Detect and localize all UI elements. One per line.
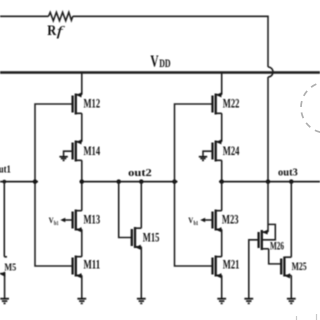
transistor M21 (213, 256, 240, 279)
svg-text:M15: M15 (143, 230, 160, 244)
wire: out1 rail to M13 drain (81, 182, 83, 211)
wire: M23 source to M21 drain (221, 229, 223, 256)
svg-text:b1: b1 (194, 220, 199, 227)
transistor M15 (132, 227, 160, 250)
node on out1 at gate bus (33, 179, 38, 184)
transistor M12 (73, 92, 101, 114)
svg-text:M23: M23 (222, 212, 239, 226)
svg-text:M21: M21 (223, 257, 240, 271)
wire: input feed to Rf (0, 15, 49, 17)
ground below M25 (287, 299, 296, 304)
node out2 at stage2 gate bus (172, 179, 177, 184)
wire: out3 to M25 drain (290, 182, 292, 258)
ground below M21 (217, 299, 226, 304)
wire: Rf to feedback corner (73, 16, 268, 67)
wire: out2 to M15 gate (119, 182, 132, 238)
svg-text:DD: DD (159, 58, 170, 70)
svg-text:M26: M26 (270, 241, 284, 253)
wire: M22 gate / M21 gate bus (node out2) (175, 104, 213, 266)
node out3 at M25 drain (289, 179, 294, 184)
node on out1 at M5 drain (2, 180, 6, 184)
transistor M24 (213, 139, 240, 161)
transistor M14 (73, 139, 101, 161)
ground at M24 gate (199, 157, 207, 161)
transistor M13 (73, 210, 101, 233)
transistor M22 (213, 92, 240, 114)
svg-text:M13: M13 (84, 212, 101, 226)
ground below M5 (0, 299, 9, 304)
wire: M26 source to M25 gate (269, 249, 282, 264)
wire: out2 to M15 drain (140, 182, 142, 229)
ground at M14 gate (59, 157, 67, 161)
svg-text:M24: M24 (223, 144, 240, 158)
wire: Vb1 arrow to M23 gate (204, 219, 213, 221)
node out2 at M15 drain (139, 179, 144, 184)
node out3 at M24/M23 column (219, 179, 224, 184)
wire: M12 source to M14 drain (81, 113, 83, 141)
svg-text:M11: M11 (84, 257, 101, 271)
transistor M11 (73, 256, 101, 279)
node out3 at feedback (266, 179, 271, 184)
transistor M5 (clipped at edge) (0, 263, 16, 299)
wire: VDD to M12 drain (81, 74, 83, 95)
rail out2 (80, 181, 178, 183)
wire: M24 gate stub (203, 151, 213, 156)
wire: M13 source to M11 drain (81, 229, 83, 256)
ground below M11 (77, 299, 86, 304)
svg-text:M5: M5 (4, 263, 16, 274)
wire: M21 source to ground (221, 275, 223, 298)
wire: M26 gate to ground (249, 240, 259, 299)
node out2 at M14/M13 column (80, 179, 85, 184)
transistor M23 (213, 210, 239, 233)
wire: M15 source to ground (140, 247, 142, 299)
svg-text:M22: M22 (223, 96, 240, 110)
resistor Rf (49, 12, 73, 20)
svg-text:V: V (150, 51, 158, 70)
wire: M12 gate / M11 gate bus (node out1) (35, 104, 73, 266)
svg-text:out1: out1 (0, 163, 11, 175)
wire: M22 source to M24 drain (221, 113, 223, 141)
wire: out1 down to M5 drain (4, 182, 7, 257)
wire: Vb1 arrow to M13 gate (64, 219, 73, 221)
wire: M25 source to ground (290, 275, 292, 298)
wire: M11 source to ground (81, 275, 83, 298)
wire: M14 gate stub (64, 151, 73, 156)
ground below M26 gate (244, 299, 253, 304)
wire: VDD to M22 drain (221, 74, 223, 95)
transistor M25 (281, 257, 307, 279)
svg-text:M14: M14 (84, 144, 101, 158)
wire: M24 source to out3 rail (221, 160, 223, 181)
svg-text:out2: out2 (128, 167, 152, 179)
ground below M15 (137, 299, 146, 304)
wire: M14 source to out1 rail (81, 160, 83, 181)
VDD rail (0, 71, 320, 74)
transistor M26 (259, 230, 285, 253)
wire: out3 to M26 drain (267, 182, 269, 232)
wire hop over VDD rail (268, 67, 273, 77)
wire: out3 rail to M23 drain (221, 182, 223, 211)
svg-text:M25: M25 (292, 261, 307, 273)
rail out3 (219, 181, 320, 183)
wire: feedback down to out3 (267, 77, 269, 182)
svg-text:R: R (47, 23, 56, 39)
wire: M26 bulk tie (262, 224, 275, 239)
svg-text:M12: M12 (84, 96, 101, 110)
faint artifact marks bottom right (297, 314, 317, 320)
svg-text:b1: b1 (54, 220, 59, 227)
annotation dashed circle (clipped at right edge) (301, 82, 320, 133)
rail out1 (0, 181, 38, 183)
node out2 at M15 gate (116, 179, 121, 184)
svg-text:out3: out3 (278, 166, 298, 178)
